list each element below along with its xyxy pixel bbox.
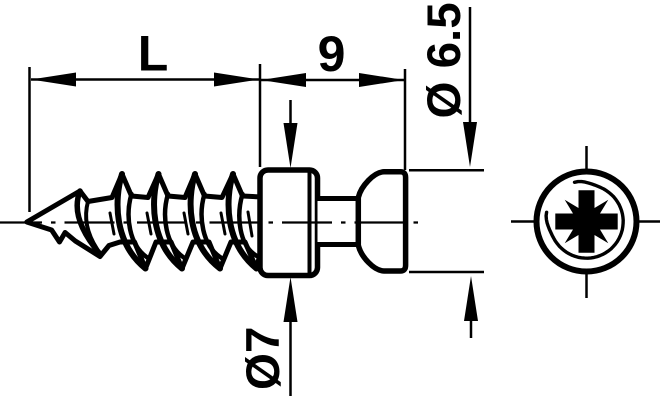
head	[358, 172, 405, 271]
thread flank ribbon 0 (cone)	[77, 191, 100, 254]
arrow 9 right	[359, 73, 404, 87]
arrow L right	[214, 73, 259, 87]
dia7 top arrow	[284, 123, 298, 168]
pozidriv cross recess	[555, 190, 617, 252]
collar	[260, 170, 318, 276]
thread flank ribbon 1	[118, 174, 146, 269]
centerline (dash-dot)	[0, 221, 426, 223]
dimension L line	[31, 78, 259, 81]
collar inner edge line	[308, 173, 312, 274]
thread flank ribbon 3	[191, 174, 220, 269]
svg-text:Ø 6.5: Ø 6.5	[418, 2, 471, 118]
screw body silhouette with wood thread	[27, 174, 262, 269]
svg-text:9: 9	[318, 26, 346, 82]
pozidriv outer circle	[537, 172, 637, 272]
svg-text:L: L	[138, 26, 169, 82]
dia6.5 bottom arrow	[464, 276, 478, 321]
pozidriv inner arc	[546, 182, 623, 259]
thread root lines	[110, 213, 114, 234]
svg-text:Ø7: Ø7	[237, 327, 290, 390]
dia6.5 top arrow	[463, 122, 477, 167]
arrow 9 left	[261, 73, 306, 87]
shank	[318, 199, 362, 245]
extension line head right	[404, 69, 407, 170]
head top extension line	[409, 169, 484, 172]
thread flank ribbon 4	[229, 174, 257, 269]
head bottom extension line	[409, 271, 484, 274]
pozidriv head view: crosshair ticks	[585, 146, 588, 171]
dia6.5 bottom leader line	[470, 318, 473, 338]
dia7 bottom arrow	[284, 277, 298, 322]
thread flank ribbon 2	[154, 174, 182, 269]
extension line left (screw tip)	[28, 67, 31, 212]
dia7 top leader line	[289, 100, 292, 128]
dia6.5 top leader line	[469, 7, 472, 128]
arrow L left	[31, 73, 76, 87]
dimension 9 line	[261, 79, 404, 82]
dia7 bottom leader line	[289, 318, 292, 396]
extension line collar left	[259, 64, 262, 167]
